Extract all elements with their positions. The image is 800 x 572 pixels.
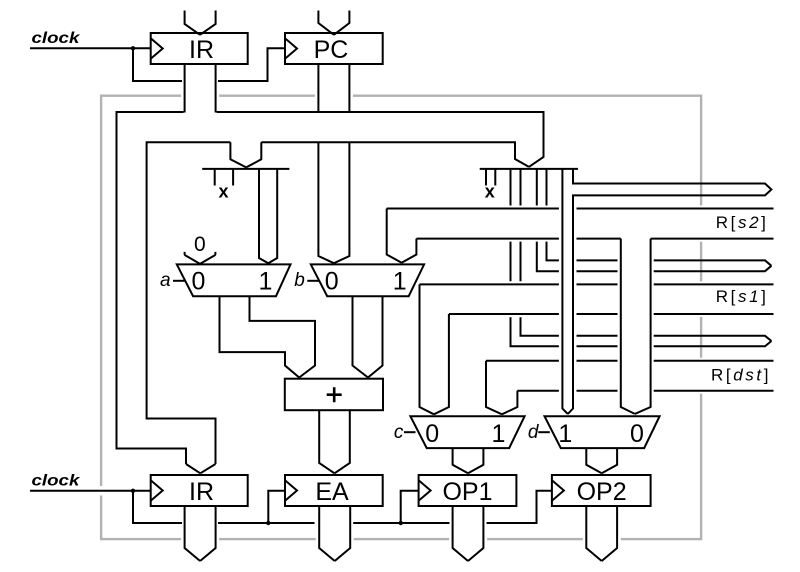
svg-text:0: 0 [630,420,644,448]
svg-text:R[s2]: R[s2] [716,213,769,232]
svg-text:c: c [394,422,404,443]
svg-text:1: 1 [259,268,273,296]
svg-text:clock: clock [32,28,81,46]
svg-text:PC: PC [314,36,349,64]
svg-text:IR: IR [189,36,214,64]
svg-text:a: a [160,270,171,291]
svg-text:0: 0 [425,420,439,448]
svg-text:0: 0 [194,233,206,256]
svg-text:x: x [485,182,495,202]
svg-text:0: 0 [192,268,206,296]
svg-text:d: d [528,422,540,443]
svg-text:0: 0 [325,268,339,296]
svg-text:x: x [218,182,228,202]
svg-text:OP1: OP1 [442,478,492,506]
svg-text:b: b [294,270,305,291]
svg-text:R[dst]: R[dst] [711,365,771,384]
svg-text:1: 1 [558,420,572,448]
svg-text:OP2: OP2 [577,478,627,506]
svg-text:1: 1 [393,268,407,296]
svg-text:clock: clock [32,471,81,489]
svg-text:IR: IR [189,478,214,506]
svg-text:R[s1]: R[s1] [716,287,769,306]
svg-text:EA: EA [315,478,349,506]
svg-text:1: 1 [491,420,505,448]
